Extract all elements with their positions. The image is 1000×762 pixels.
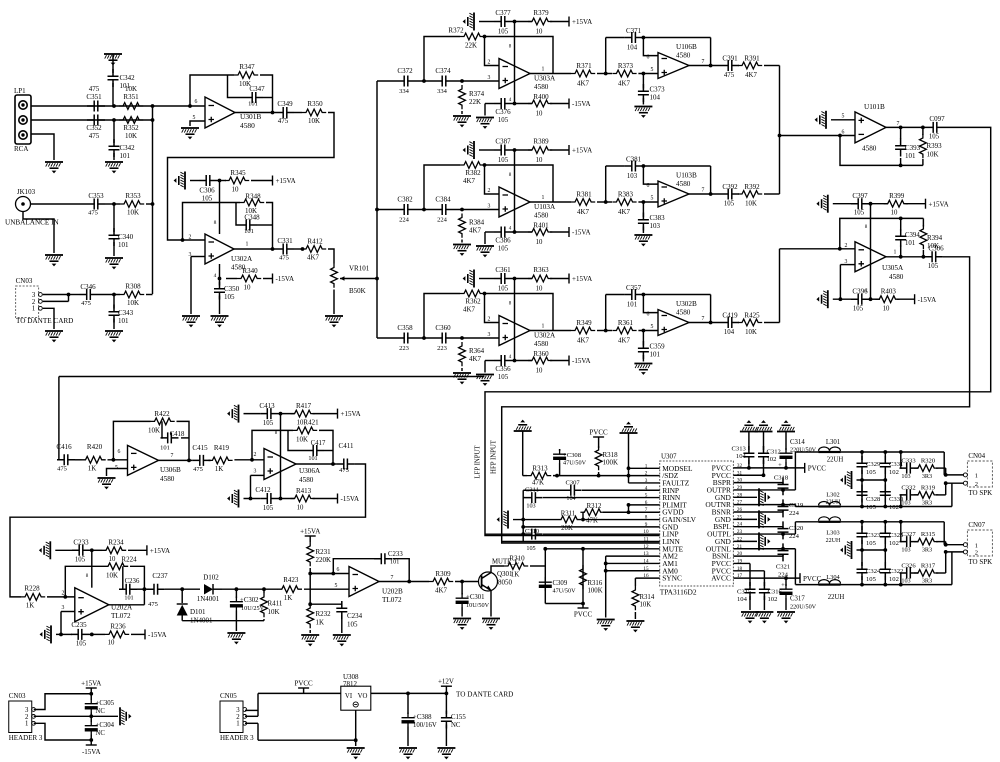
ground [815, 111, 827, 129]
svg-text:103: 103 [901, 546, 910, 553]
wire [34, 715, 118, 717]
svg-text:C310: C310 [525, 528, 540, 535]
ground [476, 117, 494, 129]
resistor R312 [580, 509, 604, 516]
svg-text:C350: C350 [224, 285, 240, 293]
resistor R360 [528, 357, 552, 364]
svg-text:22UH: 22UH [826, 538, 841, 544]
wire [209, 459, 211, 461]
wire [484, 104, 486, 116]
wire BSPL [733, 526, 783, 528]
wire (power pin) [219, 181, 221, 235]
wire (to LINP) [485, 127, 991, 535]
svg-text:R352: R352 [123, 124, 139, 132]
svg-text:105: 105 [928, 263, 939, 270]
wire [951, 552, 953, 585]
resistor R314 [632, 586, 639, 610]
inductor L302 [819, 505, 841, 507]
wire [61, 611, 75, 613]
resistor R236 [105, 631, 129, 638]
svg-text:475: 475 [278, 117, 289, 125]
ground (right) [119, 707, 131, 725]
svg-text:6: 6 [842, 129, 845, 135]
wire RINP [523, 489, 564, 491]
svg-text:C397: C397 [852, 192, 868, 200]
capacitor C328 [857, 485, 868, 503]
svg-text:4K7: 4K7 [307, 254, 320, 262]
wire [222, 588, 278, 590]
svg-text:475: 475 [89, 85, 100, 93]
svg-text:101: 101 [308, 455, 317, 462]
svg-text:D102: D102 [203, 574, 219, 582]
svg-text:4K7: 4K7 [577, 337, 590, 345]
ground [453, 244, 471, 256]
resistor R313 [527, 472, 551, 479]
svg-text:C309: C309 [553, 580, 568, 587]
svg-text:10U/50V: 10U/50V [466, 602, 490, 609]
svg-text:-15VA: -15VA [276, 275, 295, 283]
svg-text:C372: C372 [397, 67, 413, 75]
wire (feedback) [424, 294, 460, 339]
junction [860, 548, 864, 552]
svg-text:7: 7 [391, 575, 394, 581]
wire [377, 80, 397, 82]
resistor R392 [738, 191, 762, 198]
resistor R353 [120, 201, 144, 208]
svg-text:10K: 10K [308, 117, 320, 125]
svg-text:R308: R308 [125, 283, 141, 291]
svg-text:102: 102 [889, 469, 899, 476]
svg-text:105: 105 [498, 117, 509, 124]
svg-text:LP1: LP1 [14, 87, 26, 95]
svg-text:C342: C342 [120, 74, 136, 82]
wire [491, 566, 504, 573]
wire AVCC [733, 577, 800, 579]
svg-text:4K7: 4K7 [745, 72, 757, 79]
svg-text:C383: C383 [650, 214, 666, 222]
svg-text:C361: C361 [495, 266, 511, 274]
svg-text:10K: 10K [927, 151, 939, 159]
wire (feedback) [65, 566, 104, 597]
resistor R384 [459, 214, 466, 238]
svg-text:R422: R422 [154, 410, 170, 418]
svg-text:R361: R361 [618, 319, 634, 327]
wire [379, 581, 429, 583]
svg-text:R351: R351 [123, 93, 139, 101]
wire (power) [514, 279, 516, 361]
wire [288, 430, 306, 450]
resistor R374 [459, 85, 466, 109]
svg-text:R320: R320 [921, 458, 936, 465]
op-amp U202A [75, 588, 109, 622]
svg-text:JK103: JK103 [17, 188, 36, 196]
wire [244, 413, 261, 415]
resistor R412 [302, 246, 326, 253]
ground [105, 161, 123, 173]
op-amp U302A [499, 316, 530, 346]
wire PVCC row [733, 467, 804, 469]
wire (buffer feedback) [605, 38, 607, 74]
svg-text:C373: C373 [650, 86, 666, 94]
capacitor C302 [235, 589, 237, 598]
wire [245, 709, 258, 711]
junction [513, 277, 517, 281]
capacitor C358 [397, 333, 415, 344]
svg-text:1: 1 [542, 324, 545, 330]
svg-text:10K: 10K [745, 201, 757, 208]
wire [217, 180, 226, 182]
svg-text:C371: C371 [626, 27, 642, 35]
svg-text:C321: C321 [776, 564, 790, 571]
svg-text:334: 334 [437, 88, 448, 95]
svg-text:475: 475 [193, 466, 203, 473]
svg-text:+15VA: +15VA [572, 147, 592, 155]
power +15VA flag [86, 687, 97, 689]
svg-text:105: 105 [866, 540, 877, 547]
svg-text:1K: 1K [284, 594, 293, 602]
junction [67, 293, 71, 297]
svg-text:C155: C155 [451, 714, 466, 721]
svg-text:475: 475 [57, 466, 67, 473]
svg-text:103: 103 [901, 473, 910, 480]
capacitor C342 (top) [108, 69, 119, 87]
junction [642, 293, 646, 297]
svg-text:2: 2 [62, 590, 65, 596]
wire [371, 692, 447, 694]
svg-text:R231: R231 [316, 548, 332, 556]
resistor R350 [302, 109, 326, 116]
svg-text:+C308: +C308 [563, 452, 582, 459]
svg-text:R382: R382 [465, 169, 481, 177]
svg-text:1: 1 [894, 250, 897, 256]
junction [604, 562, 608, 566]
resistor R349 [571, 327, 595, 334]
junction [187, 459, 191, 463]
svg-text:1: 1 [542, 195, 545, 201]
wire BSNL [733, 555, 783, 557]
svg-text:C314: C314 [790, 439, 805, 446]
junction [483, 35, 487, 39]
svg-text:10: 10 [536, 111, 543, 118]
svg-text:105: 105 [75, 557, 86, 564]
wire [34, 723, 92, 740]
svg-text:PVCC: PVCC [294, 680, 313, 688]
svg-text:103: 103 [526, 503, 535, 510]
capacitor C155 [445, 693, 447, 714]
svg-text:105: 105 [498, 246, 509, 253]
wire [943, 522, 945, 545]
svg-text:101: 101 [120, 152, 131, 160]
svg-text:R317: R317 [921, 563, 936, 570]
power -15VA [568, 356, 570, 366]
power +15VA [568, 274, 570, 284]
svg-text:4580: 4580 [534, 340, 549, 348]
wire [689, 322, 721, 324]
svg-text:10: 10 [536, 157, 543, 164]
ground [211, 315, 229, 327]
wire (feedback) [424, 37, 460, 82]
svg-text:-15VA: -15VA [82, 748, 101, 756]
svg-text:R363: R363 [533, 266, 549, 274]
svg-text:+C304: +C304 [96, 722, 115, 729]
ground [105, 330, 123, 342]
junction [869, 202, 873, 206]
svg-text:R360: R360 [533, 350, 549, 358]
resistor R382 [460, 162, 484, 169]
junction [63, 595, 67, 599]
wire [105, 203, 120, 205]
ground [182, 315, 200, 327]
resistor R394 [920, 225, 927, 249]
svg-text:10: 10 [108, 640, 115, 647]
power -15VA flag [90, 740, 92, 745]
wire (snubber LP) [900, 522, 902, 542]
svg-text:C376: C376 [495, 108, 511, 116]
ground (right stub) [733, 496, 757, 498]
svg-text:C333: C333 [901, 458, 916, 465]
capacitor C306b [925, 251, 943, 262]
svg-text:22UH: 22UH [828, 594, 845, 601]
wire GVDD [583, 511, 584, 513]
capacitor C371 [625, 32, 643, 43]
capacitor C340 [113, 204, 115, 232]
wire BSPR [733, 482, 783, 484]
svg-text:7: 7 [897, 121, 900, 127]
junction [762, 473, 766, 477]
svg-text:105: 105 [263, 420, 274, 427]
svg-text:R311: R311 [561, 511, 575, 518]
resistor R318 [595, 446, 602, 470]
wire [794, 452, 796, 490]
ground [463, 13, 475, 31]
svg-text:PVCC: PVCC [589, 429, 608, 437]
capacitor C416 [57, 454, 75, 465]
svg-text:104: 104 [736, 453, 747, 460]
wire (snubber P) [900, 452, 902, 468]
svg-text:C331: C331 [277, 237, 293, 245]
svg-text:C417: C417 [311, 440, 326, 447]
ground (right stub) [733, 518, 757, 520]
diode D101 [181, 589, 183, 603]
wire [485, 37, 500, 66]
connector CN07 [967, 530, 992, 556]
svg-text:224: 224 [789, 510, 800, 517]
svg-text:6: 6 [118, 449, 121, 455]
power +15VA flag [305, 535, 316, 537]
svg-text:1K: 1K [316, 619, 325, 627]
ground [453, 115, 471, 127]
svg-text:-15VA: -15VA [572, 357, 591, 365]
svg-text:6: 6 [195, 99, 198, 105]
wire (summing bus) [152, 106, 154, 294]
capacitor C331 [276, 244, 294, 255]
svg-text:R353: R353 [125, 192, 141, 200]
op-amp U106B [658, 53, 689, 79]
svg-text:1: 1 [975, 542, 978, 549]
svg-text:6: 6 [647, 312, 650, 318]
op-amp U302B [658, 310, 689, 336]
wire [833, 203, 851, 205]
wire [234, 248, 276, 250]
wire [34, 694, 92, 710]
svg-text:4580: 4580 [676, 309, 691, 317]
svg-text:C326: C326 [901, 563, 916, 570]
svg-text:C412: C412 [255, 486, 271, 494]
power PVCC flag [593, 436, 604, 438]
junction [860, 583, 864, 587]
resistor R371 [571, 70, 595, 77]
svg-text:+: + [781, 582, 785, 589]
junction [181, 238, 185, 242]
wire [191, 256, 205, 258]
svg-text:R309: R309 [435, 570, 451, 578]
svg-text:TPA3116D2: TPA3116D2 [660, 588, 697, 597]
svg-text:475: 475 [724, 72, 735, 79]
junction [860, 450, 864, 454]
svg-text:C097: C097 [929, 115, 945, 123]
svg-text:R224: R224 [121, 556, 137, 564]
svg-text:R403: R403 [881, 288, 897, 296]
wire OUTNR [733, 504, 795, 506]
svg-text:+15VA: +15VA [150, 547, 170, 555]
wire [159, 459, 193, 461]
svg-text:8050: 8050 [498, 579, 513, 587]
wire [328, 249, 334, 264]
svg-text:CN04: CN04 [968, 452, 985, 460]
svg-text:C235: C235 [71, 621, 87, 629]
wire (mid rail R) [857, 479, 886, 481]
junction [112, 104, 116, 108]
junction [543, 547, 547, 551]
svg-text:4K7: 4K7 [618, 80, 631, 88]
junction node [422, 208, 426, 212]
capacitor C331 [884, 452, 886, 460]
connector CN03 (power) [9, 701, 32, 733]
capacitor C325 [884, 522, 886, 530]
junction [271, 247, 275, 251]
ground [463, 141, 475, 159]
svg-text:5: 5 [651, 67, 654, 73]
power -15VA [568, 99, 570, 109]
wire [108, 459, 128, 461]
wire [833, 298, 851, 300]
svg-text:R401: R401 [533, 222, 549, 230]
capacitor C305 [90, 694, 92, 700]
svg-text:102: 102 [889, 504, 899, 511]
capacitor C393 [895, 139, 906, 157]
resistor R309 [429, 578, 453, 585]
junction [406, 692, 410, 696]
svg-text:102: 102 [768, 596, 778, 603]
svg-text:1: 1 [542, 67, 545, 73]
wire [31, 105, 205, 107]
wire [886, 256, 925, 258]
svg-text:4K7: 4K7 [463, 306, 476, 314]
wire [333, 290, 335, 315]
svg-text:2: 2 [975, 481, 978, 488]
svg-text:104: 104 [724, 329, 735, 336]
resistor R340 [237, 275, 261, 282]
resistor R310 [504, 563, 528, 570]
wire [484, 232, 486, 244]
svg-text:C360: C360 [435, 324, 451, 332]
svg-text:C359: C359 [650, 343, 666, 351]
svg-text:TO SPK: TO SPK [968, 489, 992, 497]
ground (right stub) [733, 540, 757, 542]
capacitor C312 [763, 432, 765, 451]
svg-text:10K: 10K [127, 209, 139, 217]
svg-text:B50K: B50K [349, 287, 366, 295]
svg-text:4580: 4580 [534, 83, 549, 91]
capacitor C417 [306, 445, 324, 456]
resistor R231 [307, 542, 314, 566]
wire GAIN/SLV [513, 519, 557, 521]
ground [634, 234, 652, 246]
svg-text:2: 2 [189, 235, 192, 241]
svg-text:47U/50V: 47U/50V [553, 588, 577, 595]
svg-text:VR101: VR101 [349, 265, 370, 273]
junction [521, 525, 525, 529]
wire [861, 480, 863, 497]
svg-text:+15VA: +15VA [929, 200, 949, 208]
wire [235, 112, 276, 114]
capacitor C376 [494, 98, 512, 109]
svg-text:105: 105 [498, 286, 509, 293]
ground [399, 747, 417, 759]
wire [886, 126, 926, 128]
svg-text:3: 3 [488, 204, 491, 210]
wire (sum bus hi) [779, 66, 781, 195]
junction [112, 202, 116, 206]
wire [56, 633, 72, 635]
svg-text:R411: R411 [268, 600, 283, 608]
svg-text:U306A: U306A [299, 467, 321, 475]
junction [180, 587, 184, 591]
power +15VA [337, 409, 339, 419]
svg-text:10K: 10K [268, 608, 280, 616]
capacitor C361 [494, 273, 512, 284]
resistor R363 [528, 275, 552, 282]
svg-text:4K7: 4K7 [577, 80, 590, 88]
inductor L304 [819, 584, 841, 586]
svg-text:R228: R228 [24, 585, 40, 593]
wire [951, 483, 953, 506]
svg-text:4K7: 4K7 [469, 227, 482, 235]
svg-text:7: 7 [702, 316, 705, 322]
junction [747, 466, 751, 470]
svg-text:VO: VO [358, 693, 368, 700]
inductor L303 [819, 521, 841, 523]
svg-text:5: 5 [842, 113, 845, 119]
svg-text:5: 5 [651, 196, 654, 202]
svg-text:+15VA: +15VA [276, 177, 296, 185]
resistor R389 [528, 147, 552, 154]
junction [778, 134, 782, 138]
wire [23, 212, 54, 254]
svg-text:U103B: U103B [676, 172, 697, 180]
svg-text:L301: L301 [826, 439, 840, 446]
wire (feedback) [183, 203, 241, 241]
svg-text:CN03: CN03 [16, 277, 33, 285]
svg-text:R372: R372 [448, 27, 464, 35]
power +15VA [272, 176, 274, 186]
svg-text:C315: C315 [737, 589, 752, 596]
wire [263, 278, 273, 280]
svg-text:105: 105 [929, 134, 940, 141]
svg-text:C418: C418 [170, 431, 185, 438]
svg-text:4: 4 [214, 273, 217, 279]
svg-text:C393: C393 [905, 144, 921, 152]
